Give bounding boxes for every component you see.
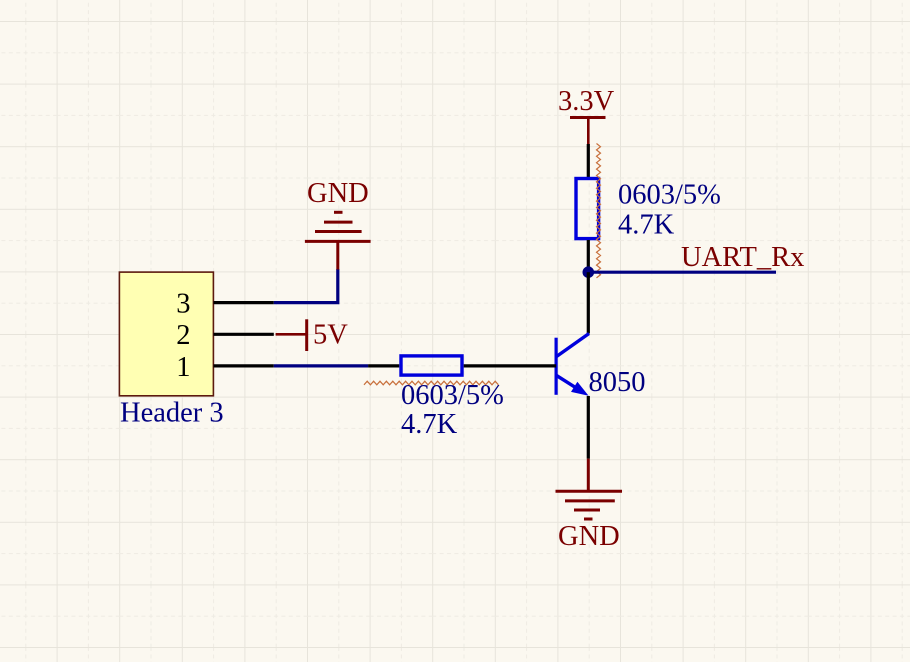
wire (pin 3 to GND top) [274,269,338,303]
svg-text:4.7K: 4.7K [401,409,458,440]
svg-text:GND: GND [307,178,369,209]
svg-text:UART_Rx: UART_Rx [681,242,804,273]
error squiggle (horizontal, under R2) [364,381,498,385]
svg-text:Header 3: Header 3 [120,397,224,428]
svg-text:3: 3 [176,289,190,320]
pin 3 [214,301,274,304]
transistor Q1 (8050 NPN) [556,334,589,396]
power port GND (bottom) [556,459,623,519]
wire (pin 1 to R2) [274,364,368,367]
resistor R2 body [401,356,462,375]
header J1 body [119,272,213,396]
svg-text:GND: GND [558,521,620,552]
resistor R2 left pin [368,364,399,367]
junction node (collector / UART_Rx) [583,266,595,278]
svg-text:0603/5%: 0603/5% [618,180,721,211]
wire (junction to Q1 collector) [587,272,590,333]
resistor R2 right pin / wire to Q1 base [464,364,556,367]
wire (3.3V to R1 top pin) [587,144,590,178]
resistor R1 bottom pin [587,240,590,272]
power port GND (top, flipped) [305,212,371,269]
svg-text:3.3V: 3.3V [558,86,615,117]
error squiggle (vertical, along R1) [597,144,601,278]
power port 5V [276,319,349,351]
svg-text:5V: 5V [313,320,348,351]
pin 1 [214,364,274,367]
power port 3.3V [558,86,615,144]
svg-text:2: 2 [176,320,190,351]
svg-text:8050: 8050 [589,367,646,398]
resistor R1 body [576,179,599,239]
svg-text:4.7K: 4.7K [618,210,675,241]
wire (Q1 emitter to GND) [587,396,590,459]
wire UART_Rx [588,271,776,274]
svg-text:0603/5%: 0603/5% [401,380,504,411]
pin 2 [214,333,274,336]
svg-text:1: 1 [176,352,190,383]
